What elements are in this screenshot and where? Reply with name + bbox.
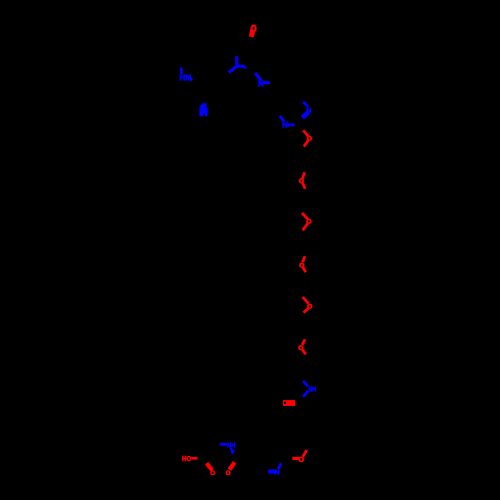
svg-text:N: N <box>306 108 311 115</box>
svg-text:O: O <box>299 262 304 269</box>
svg-text:N: N <box>282 120 288 129</box>
svg-text:O: O <box>307 136 312 143</box>
svg-text:O: O <box>226 470 231 477</box>
svg-text:N: N <box>274 467 279 476</box>
svg-text:O: O <box>298 345 303 352</box>
svg-text:O: O <box>307 304 312 311</box>
svg-text:O: O <box>251 23 257 33</box>
svg-text:NH: NH <box>227 440 235 449</box>
svg-text:NH: NH <box>308 385 316 394</box>
svg-text:N: N <box>258 79 264 88</box>
svg-text:O: O <box>298 455 304 464</box>
svg-text:HO: HO <box>182 454 191 463</box>
svg-text:O: O <box>299 178 304 185</box>
svg-text:HN: HN <box>179 72 191 82</box>
svg-text:O: O <box>306 219 311 226</box>
svg-text:O: O <box>210 470 215 477</box>
